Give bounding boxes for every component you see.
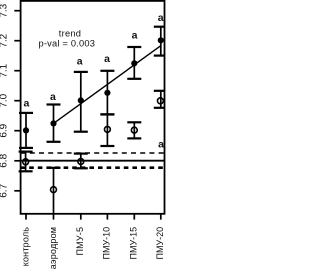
svg-text:a: a	[77, 55, 83, 67]
col2 аэродром open	[47, 168, 61, 214]
col1 контроль open	[19, 152, 33, 172]
col6 ПМУ-20 filled	[154, 27, 165, 56]
svg-text:6.8: 6.8	[0, 153, 9, 167]
col5 ПМУ-15 filled	[127, 47, 141, 79]
svg-text:trend: trend	[59, 28, 81, 38]
col1 контроль filled	[19, 113, 33, 148]
y axis labels	[0, 3, 9, 197]
col2 аэродром filled	[47, 105, 61, 142]
significance letters	[23, 12, 164, 151]
svg-text:a: a	[104, 53, 110, 65]
svg-text:a: a	[158, 139, 164, 151]
col4 ПМУ-10 filled	[100, 71, 114, 115]
svg-text:6.7: 6.7	[0, 183, 9, 197]
col3 ПМУ-5 filled	[74, 72, 88, 132]
svg-text:a: a	[50, 91, 56, 103]
thick dashed reference line	[21, 166, 165, 169]
plot frame	[21, 1, 165, 214]
x axis labels (rotated)	[20, 227, 165, 270]
col4 ПМУ-10 open	[100, 114, 114, 146]
svg-text:7.0: 7.0	[0, 93, 9, 107]
svg-text:7.1: 7.1	[0, 63, 9, 77]
col6 ПМУ-20 open	[154, 91, 165, 108]
svg-text:ПМУ-10: ПМУ-10	[102, 227, 112, 260]
x axis ticks	[26, 214, 161, 219]
svg-text:a: a	[132, 29, 138, 41]
y axis ticks	[14, 11, 20, 191]
svg-text:p-val = 0.003: p-val = 0.003	[38, 39, 95, 49]
svg-text:6.9: 6.9	[0, 123, 9, 137]
trend line	[54, 46, 161, 124]
filled series: dots	[23, 37, 164, 133]
solid reference line	[21, 160, 165, 162]
svg-text:аэродром: аэродром	[48, 227, 58, 269]
svg-text:ПМУ-15: ПМУ-15	[129, 227, 139, 260]
svg-text:ПМУ-20: ПМУ-20	[155, 227, 165, 260]
svg-text:7.2: 7.2	[0, 33, 9, 47]
svg-text:a: a	[23, 98, 29, 110]
col3 ПМУ-5 open	[74, 154, 88, 169]
svg-text:a: a	[158, 12, 164, 24]
svg-text:контроль: контроль	[20, 227, 30, 267]
svg-text:7.3: 7.3	[0, 3, 9, 17]
col5 ПМУ-15 open	[127, 122, 141, 138]
filled series: error bars	[19, 27, 165, 148]
thin dashed reference line	[21, 152, 165, 154]
svg-text:ПМУ-5: ПМУ-5	[75, 227, 85, 256]
open series: error bars + circles	[19, 91, 165, 214]
